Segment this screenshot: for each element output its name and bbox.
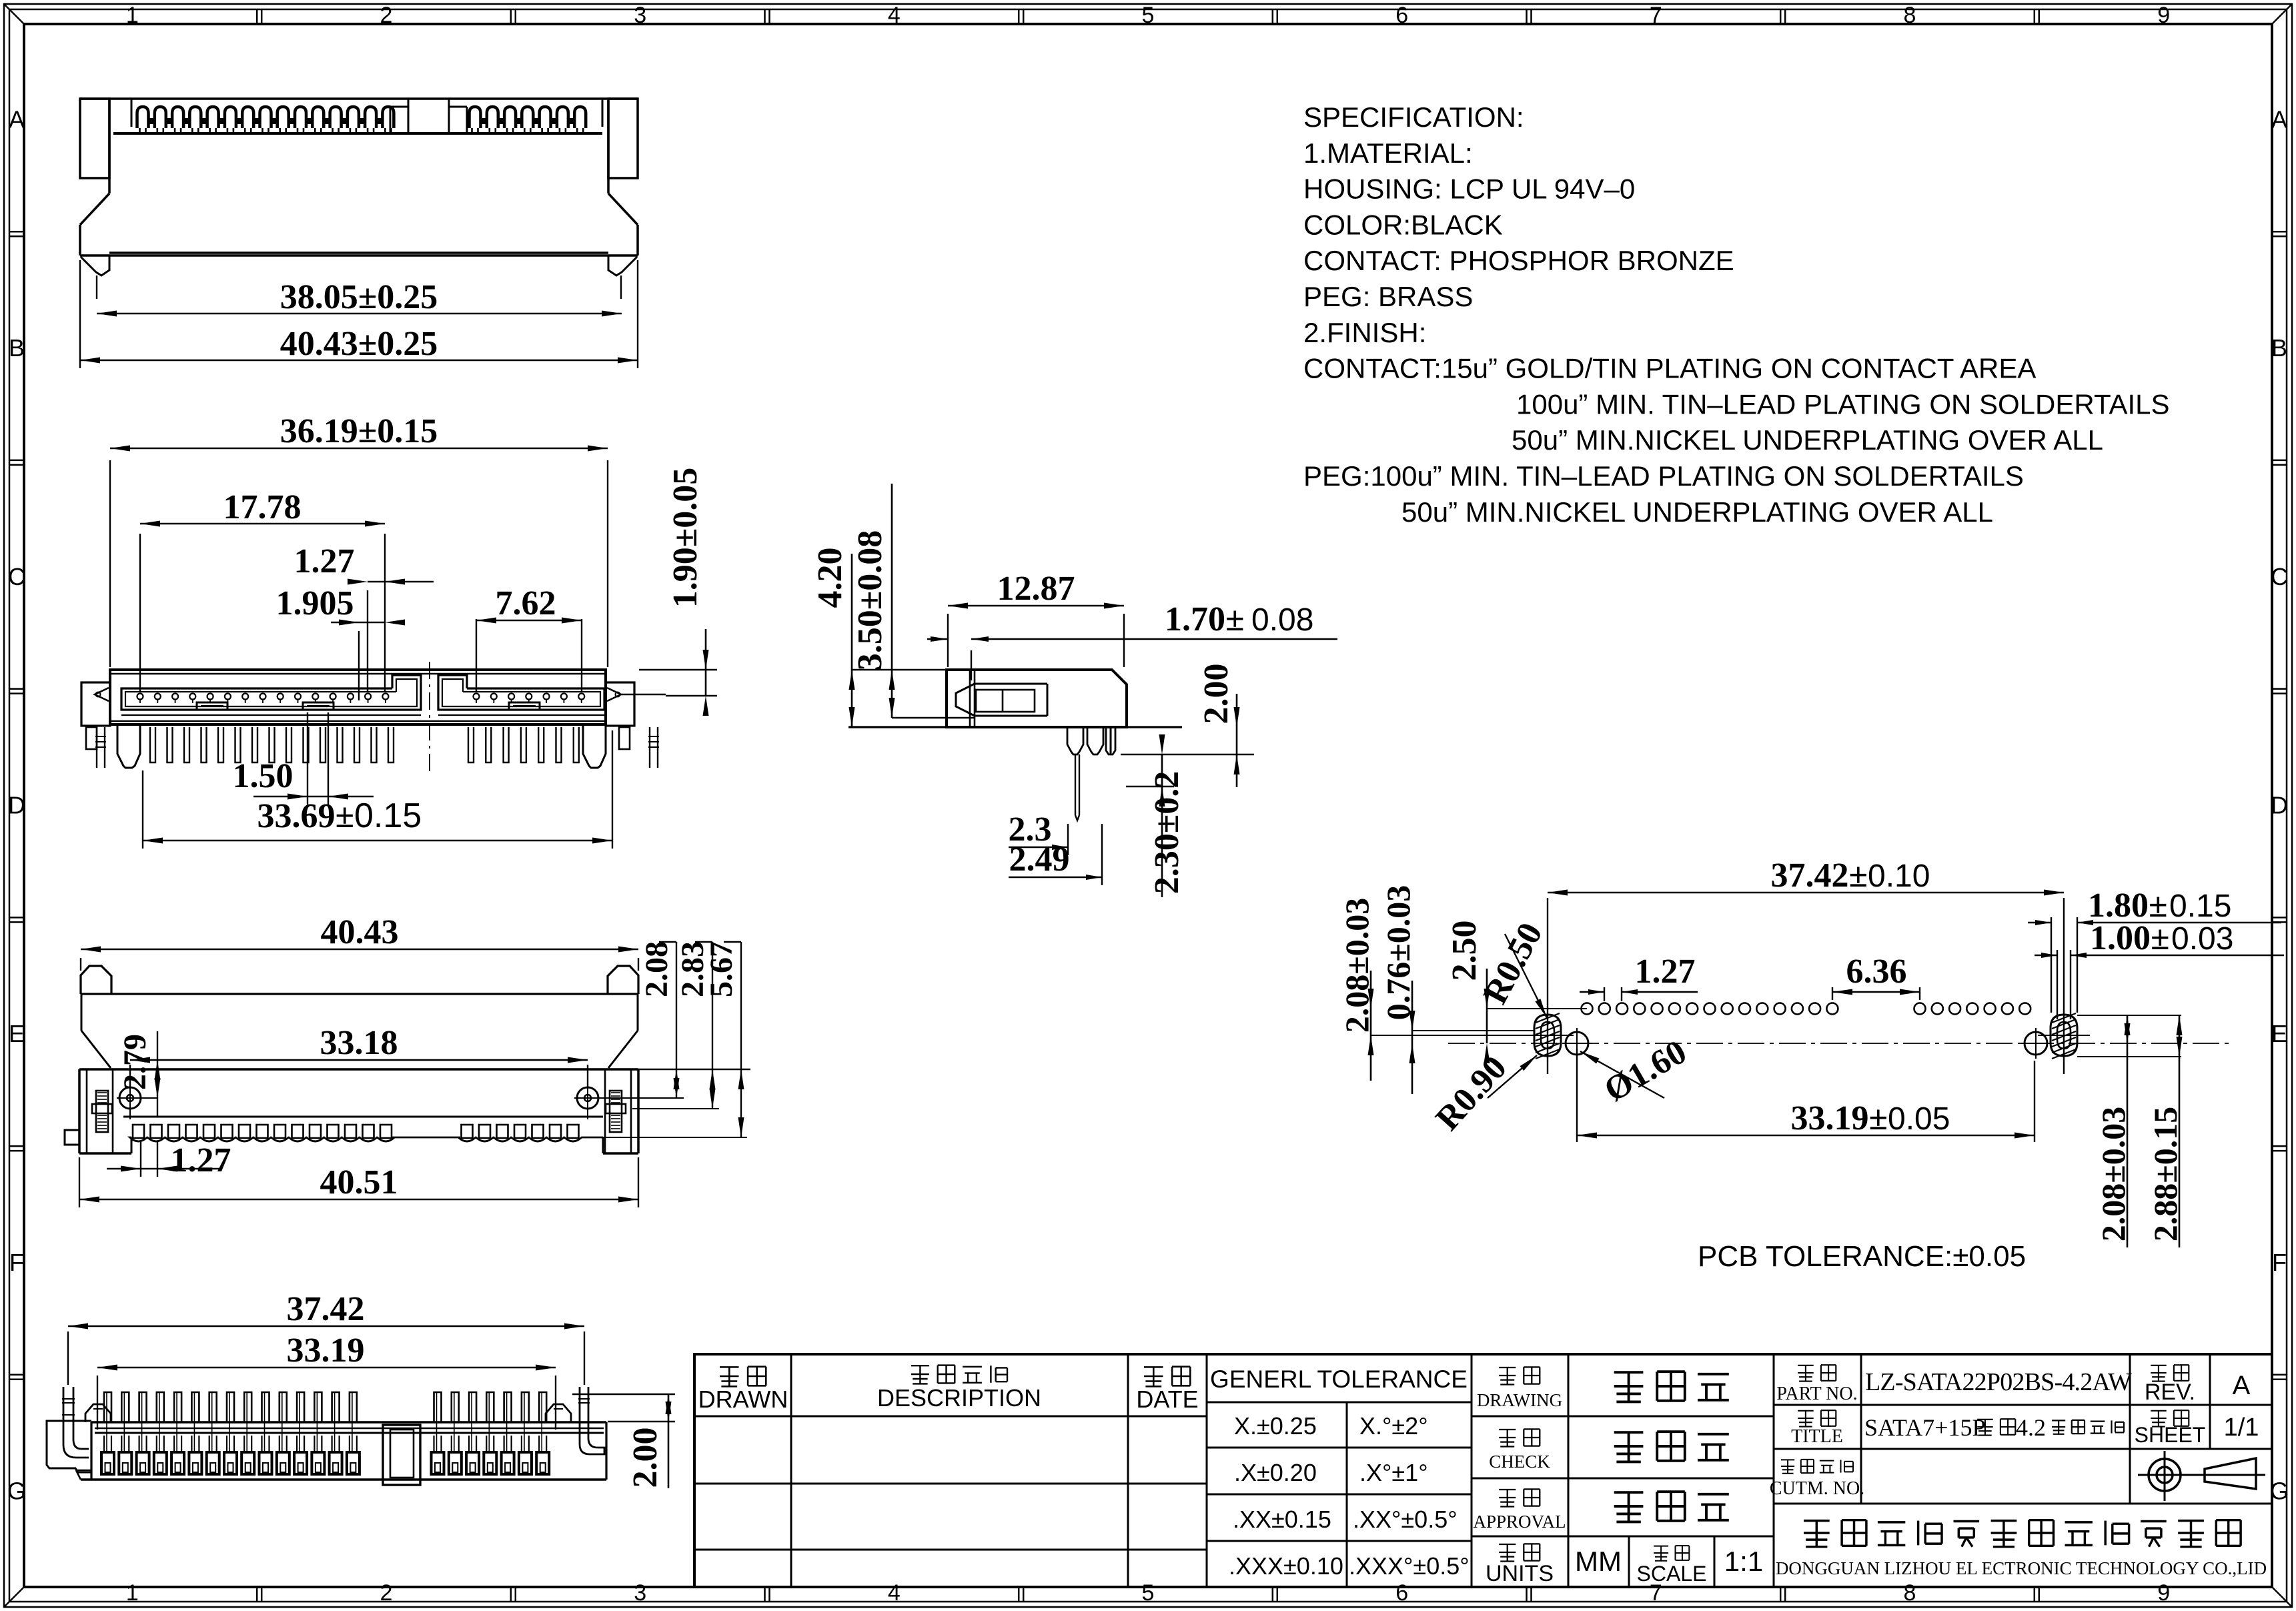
svg-text:.X±0.20: .X±0.20: [1234, 1459, 1317, 1486]
svg-text:D: D: [2271, 792, 2288, 819]
svg-text:0.76±0.03: 0.76±0.03: [1379, 885, 1417, 1020]
svg-text:6: 6: [1395, 3, 1408, 28]
view5 center key: [383, 1425, 420, 1485]
svg-text:4: 4: [888, 1580, 901, 1606]
svg-text:0.05: 0.05: [1888, 1101, 1950, 1137]
view3 mating tongue: [956, 684, 1047, 716]
svg-text:B: B: [9, 334, 25, 362]
dimension 37.42±0.10: [1548, 857, 2064, 1074]
svg-text:6: 6: [1395, 1580, 1408, 1606]
svg-text:2.FINISH:: 2.FINISH:: [1303, 317, 1426, 348]
dimension 6.36: [1832, 953, 1920, 1000]
svg-text:E: E: [2271, 1020, 2287, 1047]
title block: title row: [1791, 1410, 2124, 1447]
svg-text:4.2: 4.2: [2016, 1414, 2046, 1441]
svg-text:DESCRIPTION: DESCRIPTION: [877, 1384, 1041, 1412]
svg-text:33.19: 33.19: [287, 1331, 365, 1370]
svg-text:2.08±0.03: 2.08±0.03: [2095, 1107, 2132, 1241]
dimension 40.43±0.25: [80, 260, 638, 368]
view2 board pegs: [95, 726, 659, 768]
dimension 2.08±0.03 right: [2077, 1015, 2181, 1247]
dimension 2.00 view5: [572, 1394, 675, 1488]
svg-text:1: 1: [126, 1580, 139, 1606]
svg-text:5: 5: [1142, 1580, 1155, 1606]
title block grid: [694, 1354, 2272, 1587]
svg-text:G: G: [7, 1478, 26, 1505]
svg-text:2.88±0.15: 2.88±0.15: [2147, 1107, 2184, 1241]
dimension 2.50: [1446, 921, 1587, 1064]
title block: company name: [1776, 1520, 2267, 1578]
title block: projection symbol: [2138, 1451, 2265, 1501]
dimension 1.50: [233, 712, 374, 804]
view2 left end cap: [81, 682, 110, 749]
view5 right dome peg: [546, 1404, 571, 1422]
dimension 4.20: [811, 548, 947, 728]
title block: drawing/check/approval/units labels: [1473, 1367, 1566, 1586]
view3 pcb line: [848, 727, 1254, 754]
svg-text:100u” MIN. TIN–LEAD PLATING: 100u” MIN. TIN–LEAD PLATING ON SOLDERTAI…: [1516, 388, 2170, 420]
svg-text:X.°±2°: X.°±2°: [1359, 1412, 1428, 1440]
svg-text:1.27: 1.27: [171, 1141, 231, 1179]
dimension 2.49: [1009, 824, 1102, 885]
svg-text:33.18: 33.18: [320, 1024, 398, 1062]
svg-text:C: C: [8, 563, 25, 590]
svg-text:.XX±0.15: .XX±0.15: [1233, 1506, 1331, 1533]
svg-text:1.90±0.05: 1.90±0.05: [666, 468, 704, 608]
dimension 2.00 view3: [1197, 664, 1240, 788]
dimension 40.51: [79, 1157, 638, 1207]
svg-text:33.69±: 33.69±: [257, 797, 354, 835]
dimensions 2.08 2.83 5.67: [598, 941, 750, 1137]
dimension 33.18: [130, 1024, 588, 1089]
title block: units/scale row: [1575, 1546, 1763, 1586]
svg-text:0.03: 0.03: [2171, 921, 2233, 957]
svg-text:.XXX°±0.5°: .XXX°±0.5°: [1349, 1552, 1470, 1580]
svg-text:6.36: 6.36: [1846, 953, 1907, 991]
svg-text:9: 9: [2157, 1580, 2170, 1606]
dimension 38.05±0.25: [97, 278, 622, 317]
svg-text:CUTM. NO.: CUTM. NO.: [1770, 1478, 1864, 1499]
view2 right slot: [438, 675, 604, 715]
svg-text:DRAWN: DRAWN: [698, 1386, 788, 1413]
dimension 2.79: [117, 1031, 161, 1117]
view5 left dome peg: [85, 1404, 111, 1422]
svg-text:DRAWING: DRAWING: [1477, 1390, 1562, 1410]
view4 screw bosses: [117, 1087, 601, 1119]
leader R0.90: [1429, 1049, 1537, 1138]
svg-text:APPROVAL: APPROVAL: [1473, 1512, 1566, 1532]
dimension 2.30±0.2: [1126, 734, 1186, 897]
dimension 12.87: [948, 570, 1124, 667]
svg-text:1.50: 1.50: [233, 757, 294, 795]
svg-text:33.19±: 33.19±: [1790, 1099, 1888, 1137]
pcb left oval slot pad: [1522, 1003, 1574, 1074]
svg-text:1.27: 1.27: [1635, 953, 1696, 991]
svg-text:MM: MM: [1575, 1546, 1622, 1577]
svg-text:36.19±0.15: 36.19±0.15: [280, 412, 438, 450]
dimension 7.62: [476, 584, 582, 691]
svg-text:4: 4: [888, 3, 901, 28]
dimension 1.27 pcb: [1580, 953, 1698, 1001]
svg-text:COLOR:BLACK: COLOR:BLACK: [1303, 209, 1503, 240]
view2 body outline: [110, 670, 606, 724]
svg-text:1:1: 1:1: [1724, 1546, 1763, 1577]
dimension 1.80±0.15: [2028, 887, 2281, 1013]
svg-text:C: C: [2271, 563, 2288, 590]
svg-text:A: A: [9, 105, 25, 133]
svg-text:1.905: 1.905: [276, 584, 354, 622]
svg-text:SHEET: SHEET: [2135, 1423, 2206, 1447]
view3 through pins: [1067, 727, 1115, 821]
view2 left slot: [121, 675, 421, 715]
view5 solder pads: [101, 1452, 549, 1474]
svg-text:CHECK: CHECK: [1489, 1452, 1550, 1472]
view5 body: [76, 1422, 606, 1480]
svg-text:7.62: 7.62: [496, 584, 556, 622]
dimension 1.905: [276, 584, 406, 700]
svg-text:D: D: [8, 792, 25, 819]
view3 body outline: [947, 670, 1127, 727]
svg-text:9: 9: [2157, 3, 2170, 28]
title block: date header: [1136, 1367, 1198, 1413]
svg-text:3.50±0.08: 3.50±0.08: [851, 530, 889, 671]
dimension 36.19±0.15: [110, 412, 608, 667]
pcb pin holes: [1582, 1003, 2031, 1015]
svg-text:2: 2: [380, 1580, 393, 1606]
svg-text:A: A: [2271, 105, 2287, 133]
dimension 40.43 view4: [81, 913, 638, 971]
view5 left bracket: [47, 1418, 91, 1472]
title block: part no: [1776, 1365, 2132, 1404]
svg-text:UNITS: UNITS: [1486, 1561, 1554, 1586]
svg-text:5.67: 5.67: [704, 941, 739, 997]
dimension 1.90±0.05: [639, 468, 717, 716]
pcb right mounting hole: [2021, 1028, 2051, 1059]
svg-text:2.00: 2.00: [626, 1428, 664, 1488]
dimension 1.70±0.08: [927, 600, 1337, 680]
view4 pegs: [92, 1091, 626, 1132]
view4 ears: [81, 966, 638, 1068]
view4 body outline: [65, 1069, 638, 1153]
svg-text:2.49: 2.49: [1009, 841, 1070, 879]
svg-text:1.MATERIAL:: 1.MATERIAL:: [1303, 137, 1473, 169]
view2 contacts: [137, 694, 585, 704]
svg-text:37.42±: 37.42±: [1770, 857, 1868, 895]
dimension 0.76±0.03 left: [1379, 885, 1534, 1094]
view5 right bent pin and foot: [578, 1387, 604, 1454]
svg-text:2: 2: [380, 3, 393, 28]
dimension 1.27 view4: [107, 1141, 231, 1179]
svg-text:38.05±0.25: 38.05±0.25: [280, 278, 438, 316]
svg-text:CONTACT:15u” GOLD/TIN PLATIN: CONTACT:15u” GOLD/TIN PLATING ON CONTACT…: [1303, 353, 2036, 384]
title block: tolerance table: [1210, 1366, 1470, 1580]
svg-text:2.30±0.2: 2.30±0.2: [1148, 771, 1186, 895]
svg-text:PCB TOLERANCE:±0.05: PCB TOLERANCE:±0.05: [1698, 1240, 2026, 1273]
svg-text:.XX°±0.5°: .XX°±0.5°: [1353, 1506, 1458, 1533]
svg-text:PEG: BRASS: PEG: BRASS: [1303, 281, 1473, 312]
svg-text:1.70±: 1.70±: [1165, 600, 1245, 638]
svg-text:DONGGUAN LIZHOU EL ECTRONIC TE: DONGGUAN LIZHOU EL ECTRONIC TECHNOLOGY C…: [1776, 1558, 2267, 1578]
svg-text:50u” MIN.NICKEL UNDERPLATING: 50u” MIN.NICKEL UNDERPLATING OVER ALL: [1512, 424, 2103, 456]
svg-text:DATE: DATE: [1136, 1386, 1198, 1413]
svg-text:0.15: 0.15: [2169, 889, 2231, 924]
svg-text:F: F: [9, 1249, 24, 1276]
view1 top view outline: [80, 99, 638, 255]
view1 mounting feet: [81, 255, 637, 299]
dimension 17.78: [140, 488, 385, 691]
title block: description header: [877, 1366, 1041, 1412]
view2 key tabs: [197, 702, 540, 710]
svg-text:SCALE: SCALE: [1637, 1562, 1707, 1586]
view1 contact teeth: [137, 107, 586, 133]
svg-text:.X°±1°: .X°±1°: [1359, 1459, 1428, 1486]
title block: sheet: [2135, 1410, 2259, 1447]
title block: rev: [2145, 1365, 2251, 1405]
dimension 1.00±0.03: [2035, 919, 2284, 1019]
view4 comb contacts: [123, 1117, 603, 1141]
dimension 3.50±0.08: [851, 484, 974, 718]
specification text block: [1303, 101, 2170, 528]
svg-text:0.08: 0.08: [1251, 602, 1313, 638]
svg-text:12.87: 12.87: [997, 570, 1075, 608]
svg-text:REV.: REV.: [2145, 1380, 2195, 1405]
svg-text:3: 3: [634, 3, 646, 28]
svg-text:17.78: 17.78: [223, 488, 302, 526]
svg-text:HOUSING: LCP UL 94V–0: HOUSING: LCP UL 94V–0: [1303, 173, 1635, 205]
dimension 33.19 view5: [97, 1331, 556, 1430]
svg-text:E: E: [9, 1020, 25, 1047]
svg-text:GENERL TOLERANCE: GENERL TOLERANCE: [1210, 1366, 1468, 1393]
svg-text:3: 3: [634, 1580, 646, 1606]
svg-text:2.00: 2.00: [1197, 664, 1235, 724]
svg-text:1: 1: [126, 3, 139, 28]
svg-text:X.±0.25: X.±0.25: [1234, 1412, 1317, 1440]
view2 centerline: [429, 662, 430, 774]
title block: signature names: [1614, 1372, 1729, 1522]
view5 left bent wire pin: [62, 1387, 75, 1418]
svg-text:40.43: 40.43: [321, 913, 399, 951]
dimension 2.08±0.03 left: [1338, 898, 1534, 1081]
title block: customer no: [1770, 1460, 1864, 1499]
svg-text:SPECIFICATION:: SPECIFICATION:: [1303, 101, 1524, 133]
pcb centerline: [1448, 1043, 2229, 1044]
svg-text:2.08±0.03: 2.08±0.03: [1338, 898, 1375, 1033]
svg-text:CONTACT: PHOSPHOR BRONZE: CONTACT: PHOSPHOR BRONZE: [1303, 245, 1734, 276]
svg-text:40.43±0.25: 40.43±0.25: [280, 325, 438, 363]
svg-text:2.79: 2.79: [117, 1034, 153, 1090]
svg-text:1.27: 1.27: [294, 542, 355, 580]
view5 contact pins: [104, 1392, 546, 1452]
dimension 2.3: [1009, 811, 1069, 855]
svg-text:0.15: 0.15: [354, 796, 422, 835]
svg-text:PEG:100u” MIN. TIN–LEAD PLA: PEG:100u” MIN. TIN–LEAD PLATING ON SOLDE…: [1303, 460, 2024, 492]
svg-text:8: 8: [1904, 1580, 1916, 1606]
leader Ø1.60: [1580, 1033, 1693, 1109]
svg-text:1/1: 1/1: [2224, 1414, 2259, 1442]
svg-text:.XXX±0.10: .XXX±0.10: [1229, 1552, 1343, 1580]
svg-text:1.00±: 1.00±: [2090, 919, 2170, 957]
dimension 33.69±0.15: [143, 730, 612, 849]
svg-text:7: 7: [1650, 3, 1662, 28]
svg-text:LZ-SATA22P02BS-4.2AW: LZ-SATA22P02BS-4.2AW: [1865, 1368, 2132, 1396]
svg-text:50u” MIN.NICKEL UNDERPLATING: 50u” MIN.NICKEL UNDERPLATING OVER ALL: [1401, 496, 1993, 528]
svg-text:PART NO.: PART NO.: [1776, 1384, 1857, 1404]
dimension 33.19±0.05: [1577, 1049, 2035, 1142]
pcb right oval slot pad: [2038, 1003, 2090, 1074]
svg-text:40.51: 40.51: [320, 1163, 398, 1201]
svg-text:0.10: 0.10: [1868, 859, 1930, 894]
svg-text:37.42: 37.42: [287, 1290, 365, 1328]
title block: drawn column header: [698, 1367, 788, 1413]
dimension 37.42 view5: [68, 1290, 584, 1385]
dimension 1.27 view2: [294, 542, 434, 691]
svg-text:B: B: [2271, 334, 2287, 362]
svg-text:2.08: 2.08: [639, 941, 674, 997]
svg-text:F: F: [2272, 1249, 2287, 1276]
pcb left mounting hole: [1562, 1028, 1592, 1059]
dimension 2.88±0.15 right: [2077, 1015, 2184, 1247]
svg-text:TITLE: TITLE: [1791, 1426, 1843, 1447]
view2 right end cap: [606, 682, 666, 749]
leader R0.50: [1476, 917, 1550, 1018]
svg-text:SATA7+15P: SATA7+15P: [1864, 1414, 1985, 1441]
svg-text:5: 5: [1142, 3, 1155, 28]
view2 solder pins: [150, 727, 579, 762]
svg-text:8: 8: [1904, 3, 1916, 28]
svg-text:A: A: [2233, 1371, 2251, 1400]
svg-text:4.20: 4.20: [811, 548, 849, 608]
svg-text:2.50: 2.50: [1446, 921, 1484, 981]
